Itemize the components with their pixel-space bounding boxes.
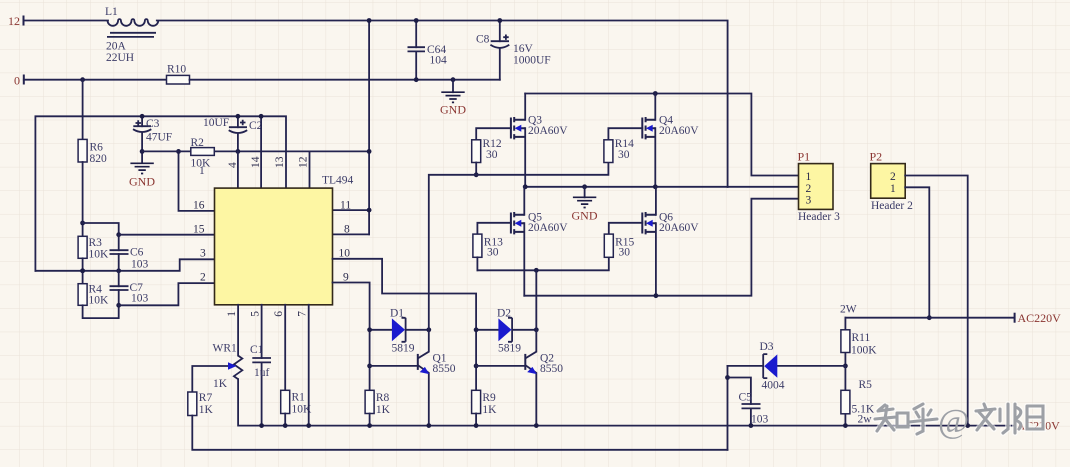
svg-text:8550: 8550 — [433, 363, 456, 375]
svg-text:R2: R2 — [191, 137, 205, 149]
wire pin6 drop — [284, 305, 286, 391]
capacitor C1 — [250, 305, 271, 426]
wire pin16 drop — [179, 151, 215, 211]
junction Q6 source — [654, 293, 659, 298]
junction R1 rail — [283, 423, 288, 428]
svg-text:12: 12 — [298, 156, 310, 168]
junction Q1 base tap — [367, 364, 372, 369]
junction P2pin1 AC — [927, 315, 932, 320]
wire gatedrive rail lower — [477, 257, 608, 270]
svg-text:2W: 2W — [840, 304, 857, 316]
watermark zhihu — [875, 403, 1043, 440]
svg-text:Header 2: Header 2 — [871, 200, 913, 212]
transistor Q1 — [370, 330, 456, 426]
capacitor C5 — [728, 378, 769, 426]
junction P2pin2 rail — [965, 423, 970, 428]
wire R6 bottom to R3 — [82, 162, 84, 236]
svg-text:10K: 10K — [89, 249, 110, 261]
IC U1 TL494 body — [215, 175, 354, 305]
connector P2 — [870, 150, 914, 213]
svg-text:10K: 10K — [89, 295, 110, 307]
junction Q3 source — [523, 184, 528, 189]
svg-text:103: 103 — [751, 414, 769, 426]
svg-text:4: 4 — [227, 162, 239, 168]
wire VCC vertical — [368, 21, 370, 235]
svg-text:R3: R3 — [89, 237, 103, 249]
junction pin15-C6 — [116, 232, 121, 237]
svg-text:1: 1 — [226, 311, 238, 317]
svg-text:R8: R8 — [376, 392, 390, 404]
svg-text:R7: R7 — [199, 392, 213, 404]
connector P1 — [798, 150, 841, 224]
svg-text:D2: D2 — [497, 308, 511, 320]
junction lower gatedrive — [534, 268, 539, 273]
junction C64 top — [414, 18, 419, 23]
svg-text:8: 8 — [344, 224, 350, 236]
wire R8 bottom — [369, 414, 371, 426]
wire mid GND rail — [525, 186, 798, 188]
wire drain rail Q3Q4 — [525, 94, 798, 176]
svg-text:10UF: 10UF — [203, 117, 229, 129]
svg-text:C3: C3 — [146, 118, 160, 130]
junction D1 cathode — [426, 327, 431, 332]
capacitor C64 — [408, 21, 448, 80]
svg-text:11: 11 — [340, 200, 351, 212]
wire AC220V upper — [845, 317, 1014, 319]
svg-text:30: 30 — [487, 247, 499, 259]
junction Q2 base tap — [474, 364, 479, 369]
wire pin14 — [260, 116, 262, 188]
svg-text:10: 10 — [339, 248, 351, 260]
junction R11 D3 — [843, 364, 848, 369]
svg-text:103: 103 — [131, 259, 149, 271]
wire pin1 to rail — [238, 379, 1015, 426]
svg-text:D3: D3 — [760, 341, 774, 353]
wire P2 pin1 drop — [905, 187, 929, 317]
wire pin12 drop — [309, 151, 311, 188]
svg-text:3: 3 — [806, 194, 812, 206]
junction C64 bottom — [414, 77, 419, 82]
mosfet Q3 — [511, 94, 568, 187]
wire R3 bottom — [82, 258, 84, 283]
svg-text:P1: P1 — [798, 150, 811, 164]
svg-text:GND: GND — [129, 175, 155, 189]
resistor R3 — [78, 236, 109, 260]
inductor L1 — [105, 6, 158, 64]
svg-text:1: 1 — [806, 171, 812, 183]
svg-text:20A60V: 20A60V — [528, 125, 568, 137]
svg-text:104: 104 — [430, 55, 448, 67]
capacitor C8 — [476, 21, 551, 80]
svg-text:D1: D1 — [390, 308, 404, 320]
junction pin14 — [259, 114, 264, 119]
junction D2 anode — [474, 327, 479, 332]
resistor R12 — [472, 138, 502, 163]
svg-text:1000UF: 1000UF — [513, 55, 551, 67]
svg-text:30: 30 — [619, 247, 631, 259]
svg-text:7: 7 — [297, 311, 309, 317]
svg-text:14: 14 — [250, 156, 262, 168]
junction GND2 tap — [451, 77, 456, 82]
junction C3 top — [140, 114, 145, 119]
svg-text:C8: C8 — [476, 34, 490, 46]
wire R6 top — [82, 80, 84, 140]
resistor R11 — [841, 318, 877, 366]
wire 12V rail main — [157, 21, 728, 188]
svg-text:2: 2 — [200, 272, 206, 284]
junction C5 rail — [749, 423, 754, 428]
junction C3 bottom — [140, 149, 145, 154]
resistor R9 — [472, 390, 498, 416]
svg-text:103: 103 — [131, 293, 149, 305]
junction pin11 — [367, 208, 372, 213]
svg-text:R11: R11 — [852, 332, 871, 344]
svg-text:2: 2 — [806, 183, 812, 195]
junction C2 bottom pin4 — [236, 149, 241, 154]
svg-text:P2: P2 — [870, 150, 883, 164]
svg-text:GND: GND — [440, 103, 466, 117]
svg-text:20A: 20A — [106, 41, 127, 53]
wire 12V rail left — [24, 20, 109, 22]
svg-text:Header 3: Header 3 — [798, 211, 840, 223]
junction Q1 emitter rail — [426, 423, 431, 428]
svg-text:TL494: TL494 — [322, 175, 354, 187]
svg-text:5: 5 — [250, 311, 262, 317]
svg-text:R9: R9 — [482, 392, 496, 404]
ground GND3 mid rail — [572, 187, 598, 223]
capacitor C6 — [110, 235, 149, 271]
wire pin1 drop — [237, 305, 239, 356]
svg-text:C6: C6 — [130, 247, 144, 259]
junction D1 anode — [367, 327, 372, 332]
junction Q2 emitter rail — [534, 423, 539, 428]
svg-text:R1: R1 — [292, 392, 306, 404]
svg-text:AC220V: AC220V — [1018, 311, 1062, 325]
junction C5 tap — [725, 375, 730, 380]
junction R5 rail — [843, 423, 848, 428]
capacitor C3 — [133, 116, 172, 163]
wire Q4 gate — [608, 128, 642, 140]
ground GND2 under 0 rail — [440, 80, 466, 117]
junction GND3 tap — [582, 184, 587, 189]
wire pin9 drop — [333, 283, 370, 391]
svg-text:WR1: WR1 — [213, 343, 238, 355]
svg-text:L1: L1 — [105, 6, 118, 18]
junction Q4 source — [653, 184, 658, 189]
junction C1 rail — [259, 423, 264, 428]
resistor R10 — [167, 64, 190, 85]
svg-text:4004: 4004 — [762, 380, 785, 392]
wire pin10 jog — [333, 259, 477, 391]
diode D3 — [728, 341, 846, 392]
wire R1 bottom — [284, 414, 286, 426]
junction C7 bottom — [116, 303, 121, 308]
capacitor C2 — [203, 116, 263, 151]
junction R6-R3-C6 — [80, 221, 85, 226]
svg-text:C5: C5 — [739, 392, 753, 404]
wire R12 bottom — [475, 163, 477, 175]
wire 0 rail left — [24, 79, 167, 81]
junction R3-R4 — [80, 268, 85, 273]
resistor R14 — [604, 138, 634, 163]
potentiometer WR1 — [192, 343, 242, 393]
svg-text:1K: 1K — [199, 404, 214, 416]
wire gatedrive rail upper — [429, 163, 609, 330]
svg-text:16: 16 — [193, 200, 205, 212]
capacitor C7 — [110, 271, 149, 306]
junction C8 top — [497, 18, 502, 23]
junction C2 top — [236, 114, 241, 119]
junction R12 rail — [474, 172, 479, 177]
ground GND1 under C3 — [129, 163, 155, 188]
svg-text:15: 15 — [193, 224, 205, 236]
svg-text:47UF: 47UF — [146, 132, 172, 144]
junction R9 rail — [474, 423, 479, 428]
wire C6 top jog — [83, 223, 119, 235]
svg-text:1uf: 1uf — [254, 367, 270, 379]
resistor R2 — [191, 137, 215, 177]
svg-text:820: 820 — [90, 153, 108, 165]
svg-text:2w: 2w — [858, 414, 873, 426]
mosfet Q6 — [642, 187, 699, 296]
diode D1 — [370, 308, 429, 355]
svg-text:R5: R5 — [859, 379, 873, 391]
wire feedback left vertical — [35, 116, 286, 270]
node 12 label — [8, 14, 24, 28]
svg-text:2: 2 — [890, 171, 896, 183]
svg-text:1: 1 — [890, 183, 896, 195]
wire pin15 stub — [119, 234, 215, 236]
junction pin16 — [176, 149, 181, 154]
svg-text:30: 30 — [618, 149, 630, 161]
svg-text:R10: R10 — [167, 64, 186, 76]
svg-text:20A60V: 20A60V — [659, 222, 699, 234]
resistor R5 — [841, 366, 875, 426]
resistor R8 — [365, 390, 391, 416]
resistor R6 — [78, 139, 107, 165]
wire R9 bottom — [475, 414, 477, 426]
svg-text:1K: 1K — [376, 404, 391, 416]
svg-text:1: 1 — [199, 165, 205, 177]
junction VCC top — [367, 18, 372, 23]
svg-text:0: 0 — [14, 74, 20, 88]
diode D2 — [476, 308, 536, 355]
svg-text:12: 12 — [8, 14, 20, 28]
junction D2 cathode — [534, 327, 539, 332]
wire pin8 stub — [333, 233, 370, 235]
svg-text:5819: 5819 — [392, 343, 415, 355]
svg-text:C1: C1 — [250, 344, 264, 356]
node 0 label — [14, 74, 24, 88]
wire pin7 drop — [308, 305, 310, 426]
node AC220V upper — [1015, 311, 1062, 325]
resistor R1 — [281, 390, 312, 415]
junction R8 rail — [367, 423, 372, 428]
mosfet Q5 — [511, 187, 568, 296]
resistor R4 — [78, 284, 109, 307]
resistor R15 — [604, 234, 634, 258]
svg-text:1K: 1K — [213, 378, 228, 390]
transistor Q2 — [476, 330, 563, 426]
svg-text:GND: GND — [572, 209, 598, 223]
junction VCC R2line — [367, 149, 372, 154]
svg-text:30: 30 — [486, 149, 498, 161]
svg-text:100K: 100K — [851, 345, 877, 357]
resistor R7 — [188, 392, 214, 416]
wire R13 bottom — [476, 257, 478, 270]
wire P2 pin2 to lower rail — [905, 176, 968, 426]
wire pin2 jog — [119, 283, 215, 305]
wire D3 left drop — [727, 366, 729, 450]
resistor R13 — [473, 234, 503, 258]
mosfet Q4 — [642, 94, 699, 187]
wire 0 rail right — [190, 79, 500, 81]
svg-text:13: 13 — [274, 156, 286, 168]
wire Q2 collector feed — [535, 270, 537, 330]
svg-text:6: 6 — [273, 311, 285, 317]
junction fb-R3R4 — [80, 268, 85, 273]
svg-text:22UH: 22UH — [106, 52, 134, 64]
svg-text:20A60V: 20A60V — [659, 125, 699, 137]
svg-text:20A60V: 20A60V — [528, 222, 568, 234]
junction Q4 drain — [653, 91, 658, 96]
node AC220V lower — [1015, 419, 1061, 433]
wire Q5 gate — [477, 223, 511, 234]
svg-text:3: 3 — [200, 248, 206, 260]
svg-text:8550: 8550 — [540, 363, 563, 375]
wire R2 line — [142, 150, 369, 152]
svg-text:16V: 16V — [513, 43, 534, 55]
svg-text:@: @ — [938, 403, 969, 440]
svg-text:1K: 1K — [482, 404, 497, 416]
wire pin11 stub — [333, 209, 370, 211]
wire Q6 gate — [609, 223, 643, 234]
junction C6 bottom — [116, 268, 121, 273]
svg-text:5819: 5819 — [498, 343, 521, 355]
wire R4 bottom U-jog — [83, 305, 119, 318]
wire node 270.8 horizontal — [35, 259, 214, 271]
svg-text:R6: R6 — [90, 142, 104, 154]
wire pin4 — [237, 151, 239, 188]
wire R7 bottom lowest rail — [192, 416, 727, 450]
junction 0-R6 — [80, 77, 85, 82]
wire Q3 gate — [476, 128, 511, 140]
junction pin7 rail — [306, 423, 311, 428]
wire source rail Q5Q6 — [524, 199, 798, 296]
